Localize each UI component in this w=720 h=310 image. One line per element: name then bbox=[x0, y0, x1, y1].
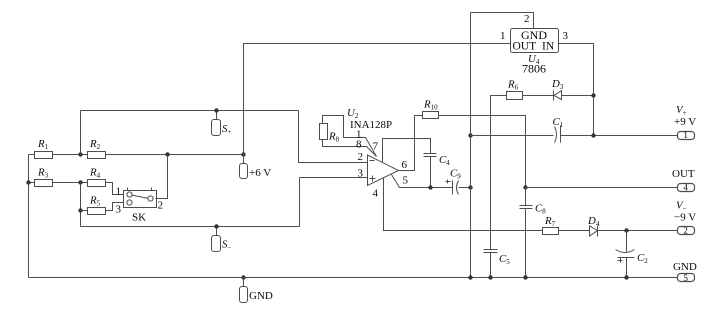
node C5 gnd bbox=[488, 275, 492, 279]
wire C2 to gnd bbox=[626, 258, 628, 278]
svg-text:2: 2 bbox=[158, 200, 164, 212]
svg-text:1: 1 bbox=[683, 130, 688, 140]
ground symbol bbox=[240, 275, 273, 302]
wire C5 to gnd bbox=[490, 253, 492, 278]
node +6V junction bbox=[241, 152, 245, 156]
svg-text:7806: 7806 bbox=[522, 62, 546, 76]
wire 7806 gnd column bbox=[470, 13, 472, 278]
node pin5-C4 junction bbox=[428, 185, 432, 189]
wire R1 left bbox=[29, 154, 35, 156]
wire S+ riser bbox=[80, 111, 82, 155]
svg-text:IN: IN bbox=[542, 41, 555, 53]
switch SK bbox=[124, 188, 157, 224]
wire V+ row right bbox=[561, 135, 678, 137]
capacitor C1 bbox=[553, 116, 564, 143]
node left rail R3 bbox=[26, 180, 30, 184]
resistor R5 bbox=[88, 195, 106, 215]
wire R8 bottom to pin8 bbox=[323, 140, 377, 157]
wire R6 to D3 bbox=[523, 95, 554, 97]
wire C9 right bbox=[459, 187, 471, 189]
wire 7806 pin3 bbox=[559, 44, 594, 136]
svg-text:5: 5 bbox=[403, 175, 409, 187]
sensor S+ bbox=[212, 108, 232, 136]
wire S+ drop to pin2 bbox=[299, 111, 368, 163]
svg-text:2: 2 bbox=[358, 151, 364, 163]
wire R8 top to pin1 bbox=[323, 116, 377, 157]
wire 7806 OUT to +6V bbox=[244, 44, 511, 155]
wire R7 to D4 bbox=[559, 230, 590, 232]
regulator U4 7806 bbox=[511, 28, 559, 76]
svg-text:OUT: OUT bbox=[672, 168, 695, 180]
svg-text:4: 4 bbox=[373, 188, 379, 200]
terminal 4 OUT bbox=[672, 168, 695, 192]
wire OUT column to C8 bbox=[525, 188, 527, 206]
wire bottom ground rail bbox=[29, 277, 678, 279]
wire OUT row bbox=[526, 187, 678, 189]
sensor S- bbox=[212, 224, 232, 251]
svg-text:2: 2 bbox=[683, 226, 688, 236]
svg-text:+6 V: +6 V bbox=[249, 167, 271, 179]
node SK2 junction bbox=[165, 152, 169, 156]
terminal 1 V+ bbox=[674, 104, 696, 140]
wire top link bbox=[471, 13, 534, 29]
svg-text:INA128P: INA128P bbox=[350, 119, 392, 131]
capacitor C9 bbox=[446, 168, 462, 195]
svg-text:GND: GND bbox=[249, 290, 273, 302]
node V+ column top bbox=[468, 133, 472, 137]
wire C4 to pin5 row bbox=[430, 157, 432, 188]
svg-text:6: 6 bbox=[402, 159, 408, 171]
resistor R3 bbox=[35, 167, 53, 187]
wire R1-R2 bbox=[53, 154, 88, 156]
wire C8 to gnd bbox=[525, 209, 527, 278]
svg-text:8: 8 bbox=[356, 139, 362, 151]
node gnd column bottom bbox=[468, 275, 472, 279]
wire SK pin2 to R2 row bbox=[156, 155, 168, 199]
capacitor C4 bbox=[424, 154, 451, 168]
svg-text:OUT: OUT bbox=[513, 41, 537, 53]
node D3 junction bbox=[591, 93, 595, 97]
node R3-R4 junction bbox=[78, 180, 82, 184]
wire D4 to terminal 2 bbox=[598, 230, 678, 232]
svg-text:SK: SK bbox=[132, 211, 146, 223]
wire V+ row left bbox=[471, 135, 554, 137]
node C9 to gnd-column bbox=[468, 185, 472, 189]
terminal 5 GND bbox=[673, 261, 697, 283]
wire R2 to +6V node bbox=[106, 154, 244, 156]
wire R5 to SK pin3 bbox=[106, 203, 124, 211]
svg-text:−9 V: −9 V bbox=[674, 212, 696, 224]
wire S- row bbox=[81, 178, 300, 227]
terminal 2 V- bbox=[674, 200, 696, 236]
wire D3 to V+ column bbox=[562, 95, 594, 97]
node R5 left junction bbox=[78, 208, 82, 212]
capacitor C2 bbox=[616, 231, 649, 266]
wire mid rail bbox=[80, 183, 82, 227]
wire pin7 to C4 bbox=[383, 139, 431, 163]
wire R3-R4 bbox=[53, 182, 88, 184]
svg-text:GND: GND bbox=[673, 261, 697, 273]
svg-text:3: 3 bbox=[563, 30, 569, 42]
wire pin5 bbox=[392, 175, 453, 188]
resistor R8 bbox=[320, 124, 340, 144]
node C8 gnd bbox=[523, 275, 527, 279]
wire op-amp pin3 bbox=[300, 177, 368, 179]
svg-text:3: 3 bbox=[116, 203, 122, 215]
wire R5 left bbox=[81, 210, 88, 212]
wire R3 left bbox=[29, 182, 35, 184]
node C2 junction bbox=[624, 228, 628, 232]
wire left rail bbox=[28, 155, 30, 278]
svg-text:+9 V: +9 V bbox=[674, 116, 696, 128]
resistor R1 bbox=[35, 138, 53, 159]
svg-text:1: 1 bbox=[500, 30, 506, 42]
svg-text:3: 3 bbox=[358, 168, 364, 180]
svg-text:7: 7 bbox=[373, 141, 379, 153]
wire pin4 row bbox=[384, 178, 543, 231]
node C2 gnd bbox=[624, 275, 628, 279]
svg-text:2: 2 bbox=[524, 13, 530, 25]
node OUT junction bbox=[523, 185, 527, 189]
diode D4 bbox=[587, 215, 600, 237]
resistor R6 bbox=[507, 79, 523, 100]
wire R4 to SK pin1 bbox=[106, 183, 124, 195]
node V+ junction bbox=[591, 133, 595, 137]
op-amp U2 bbox=[347, 107, 399, 186]
wire S+ row bbox=[81, 110, 299, 112]
capacitor C8 bbox=[520, 203, 547, 216]
resistor R4 bbox=[88, 167, 106, 187]
node R1-R2 junction bbox=[78, 152, 82, 156]
wire R6 left drop bbox=[491, 96, 507, 250]
terminal +6V bbox=[240, 155, 272, 180]
capacitor C5 bbox=[484, 250, 511, 267]
resistor R10 bbox=[423, 99, 439, 119]
wire R10 right bbox=[439, 116, 526, 188]
svg-text:5: 5 bbox=[683, 273, 688, 283]
svg-text:1: 1 bbox=[116, 186, 122, 198]
resistor R2 bbox=[88, 138, 106, 159]
resistor R7 bbox=[543, 215, 559, 235]
wire pin6 to R10 bbox=[399, 116, 423, 171]
diode D3 bbox=[551, 78, 564, 101]
svg-text:4: 4 bbox=[683, 182, 688, 192]
